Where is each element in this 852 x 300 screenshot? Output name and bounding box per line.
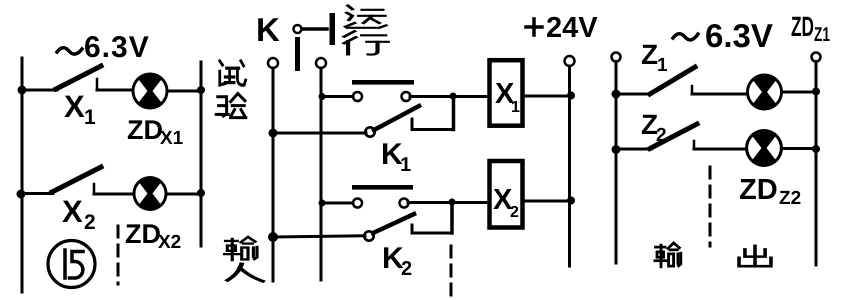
svg-text:1: 1	[657, 55, 668, 76]
svg-text:ZD: ZD	[127, 115, 163, 145]
svg-text:1: 1	[84, 106, 96, 129]
svg-text:2: 2	[510, 204, 519, 221]
svg-text:1: 1	[400, 154, 411, 176]
svg-text:24V: 24V	[546, 12, 598, 44]
svg-text:6.3V: 6.3V	[705, 17, 773, 54]
svg-text:X1: X1	[160, 128, 184, 149]
svg-text:Z: Z	[641, 39, 658, 70]
svg-text:ZD: ZD	[739, 174, 778, 206]
svg-text:ZD: ZD	[791, 11, 814, 42]
svg-text:Z1: Z1	[814, 24, 830, 46]
svg-text:2: 2	[401, 258, 412, 280]
svg-text:Z2: Z2	[779, 188, 801, 209]
svg-text:K: K	[256, 11, 280, 48]
svg-text:X: X	[64, 89, 85, 124]
svg-text:6.3V: 6.3V	[84, 31, 150, 64]
svg-text:X2: X2	[158, 232, 181, 253]
svg-text:2: 2	[84, 211, 96, 234]
svg-text:ZD: ZD	[125, 219, 161, 249]
svg-text:X: X	[62, 194, 83, 229]
svg-text:2: 2	[656, 125, 667, 146]
svg-text:1: 1	[511, 99, 520, 116]
